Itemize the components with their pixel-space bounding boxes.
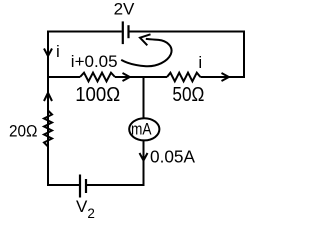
svg-text:mA: mA <box>131 119 152 138</box>
arrow down 0.05A <box>140 153 148 161</box>
svg-text:0.05A: 0.05A <box>150 146 195 166</box>
resistor R3 20ohm <box>44 111 52 147</box>
wire right vertical <box>243 31 245 79</box>
svg-text:i: i <box>56 42 60 61</box>
svg-text:20Ω: 20Ω <box>9 122 38 141</box>
wire bottom <box>48 184 144 186</box>
arrow right after R2 <box>222 73 229 81</box>
arrow right after R1 <box>123 73 130 81</box>
battery V2 <box>80 175 86 198</box>
svg-text:2V: 2V <box>114 0 135 19</box>
wire left vertical <box>47 31 49 187</box>
loop arrow (curved) <box>121 34 171 66</box>
arrow up (left, above 20ohm) <box>44 93 52 101</box>
svg-text:i+0.05: i+0.05 <box>71 52 118 71</box>
wire mA branch upper <box>143 77 145 119</box>
svg-text:50Ω: 50Ω <box>172 84 204 106</box>
svg-text:V2: V2 <box>76 197 95 221</box>
wire mA branch lower <box>143 139 145 186</box>
resistor R1 100ohm <box>80 73 115 82</box>
arrow current i down (left top) <box>44 49 52 57</box>
resistor R2 50ohm <box>167 73 200 82</box>
wire top <box>48 31 244 33</box>
wire middle horizontal <box>48 76 244 78</box>
battery B1 2V <box>123 21 129 44</box>
svg-text:100Ω: 100Ω <box>75 84 120 106</box>
ammeter M1 mA <box>129 118 159 140</box>
svg-text:i: i <box>198 53 202 72</box>
